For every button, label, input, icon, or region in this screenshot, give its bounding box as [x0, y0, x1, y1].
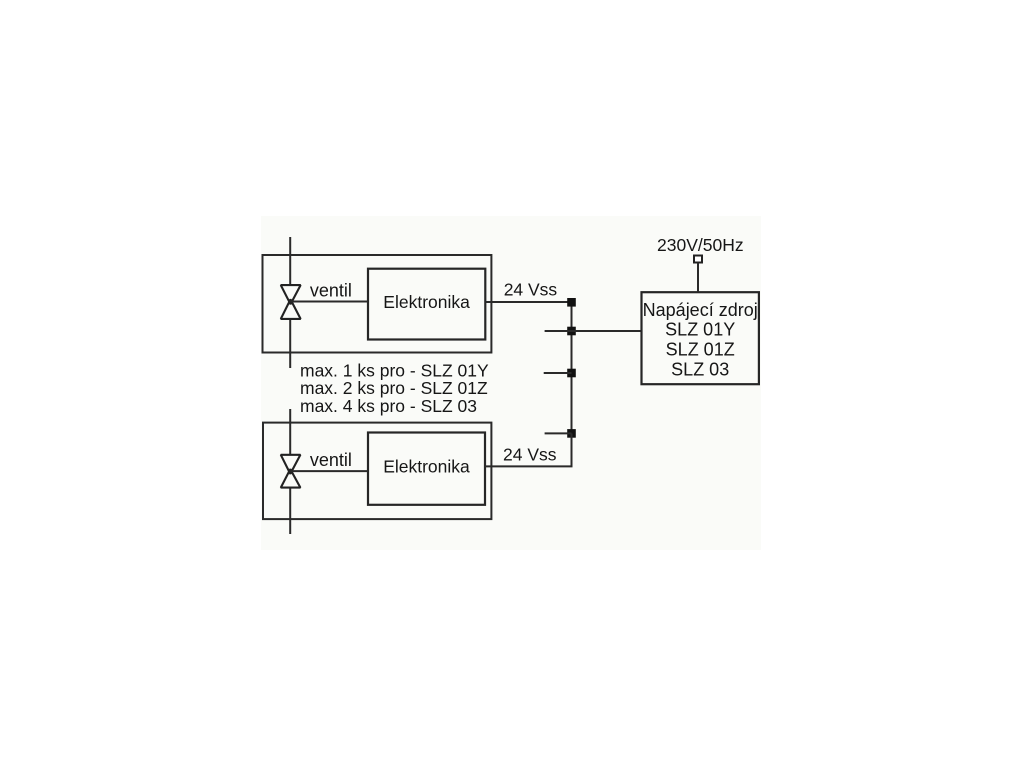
wire valve1 to U1: [290, 301, 368, 303]
scan background: [261, 216, 761, 550]
wire valve stem 1 upper: [289, 237, 291, 286]
svg-text:Elektronika: Elektronika: [383, 292, 470, 312]
wire valve stem 2 upper: [289, 409, 291, 455]
outer box (valve unit 1): [263, 255, 492, 353]
wire terminal to power supply: [697, 263, 699, 293]
wire U2 to bus: [485, 433, 572, 466]
terminal 230V: [694, 256, 702, 263]
svg-text:ventil: ventil: [310, 280, 352, 300]
outer box (valve unit 2): [263, 423, 491, 519]
svg-text:ventil: ventil: [310, 450, 352, 470]
wire stub 2: [545, 330, 572, 332]
power supply box PS1: [642, 292, 759, 384]
wire valve stem 2 lower: [289, 487, 291, 534]
junction node 1: [567, 298, 576, 307]
junction node 2: [567, 327, 576, 336]
wire valve stem 1 lower: [289, 319, 291, 368]
svg-text:max. 4 ks pro - SLZ 03: max. 4 ks pro - SLZ 03: [300, 396, 477, 416]
wire U1 to bus: [485, 301, 571, 303]
svg-text:Napájecí zdroj: Napájecí zdroj: [643, 300, 758, 320]
wire stub 4: [545, 432, 572, 434]
valve V2: [281, 455, 301, 488]
wire bus to power supply: [572, 330, 642, 332]
valve V1: [281, 285, 301, 319]
elektronika box U2: [368, 433, 485, 505]
svg-text:SLZ 03: SLZ 03: [671, 359, 729, 379]
bus vertical: [571, 302, 573, 466]
svg-text:24 Vss: 24 Vss: [503, 445, 557, 465]
svg-text:SLZ 01Y: SLZ 01Y: [665, 320, 735, 340]
wire stub 3: [544, 372, 572, 374]
svg-text:SLZ 01Z: SLZ 01Z: [666, 340, 735, 360]
junction node 3: [567, 369, 576, 378]
svg-text:Elektronika: Elektronika: [383, 457, 470, 477]
svg-text:230V/50Hz: 230V/50Hz: [657, 235, 744, 255]
svg-text:24 Vss: 24 Vss: [504, 279, 558, 299]
elektronika box U1: [368, 269, 485, 340]
wire valve2 to U2: [290, 470, 368, 472]
junction node 4: [567, 429, 576, 438]
